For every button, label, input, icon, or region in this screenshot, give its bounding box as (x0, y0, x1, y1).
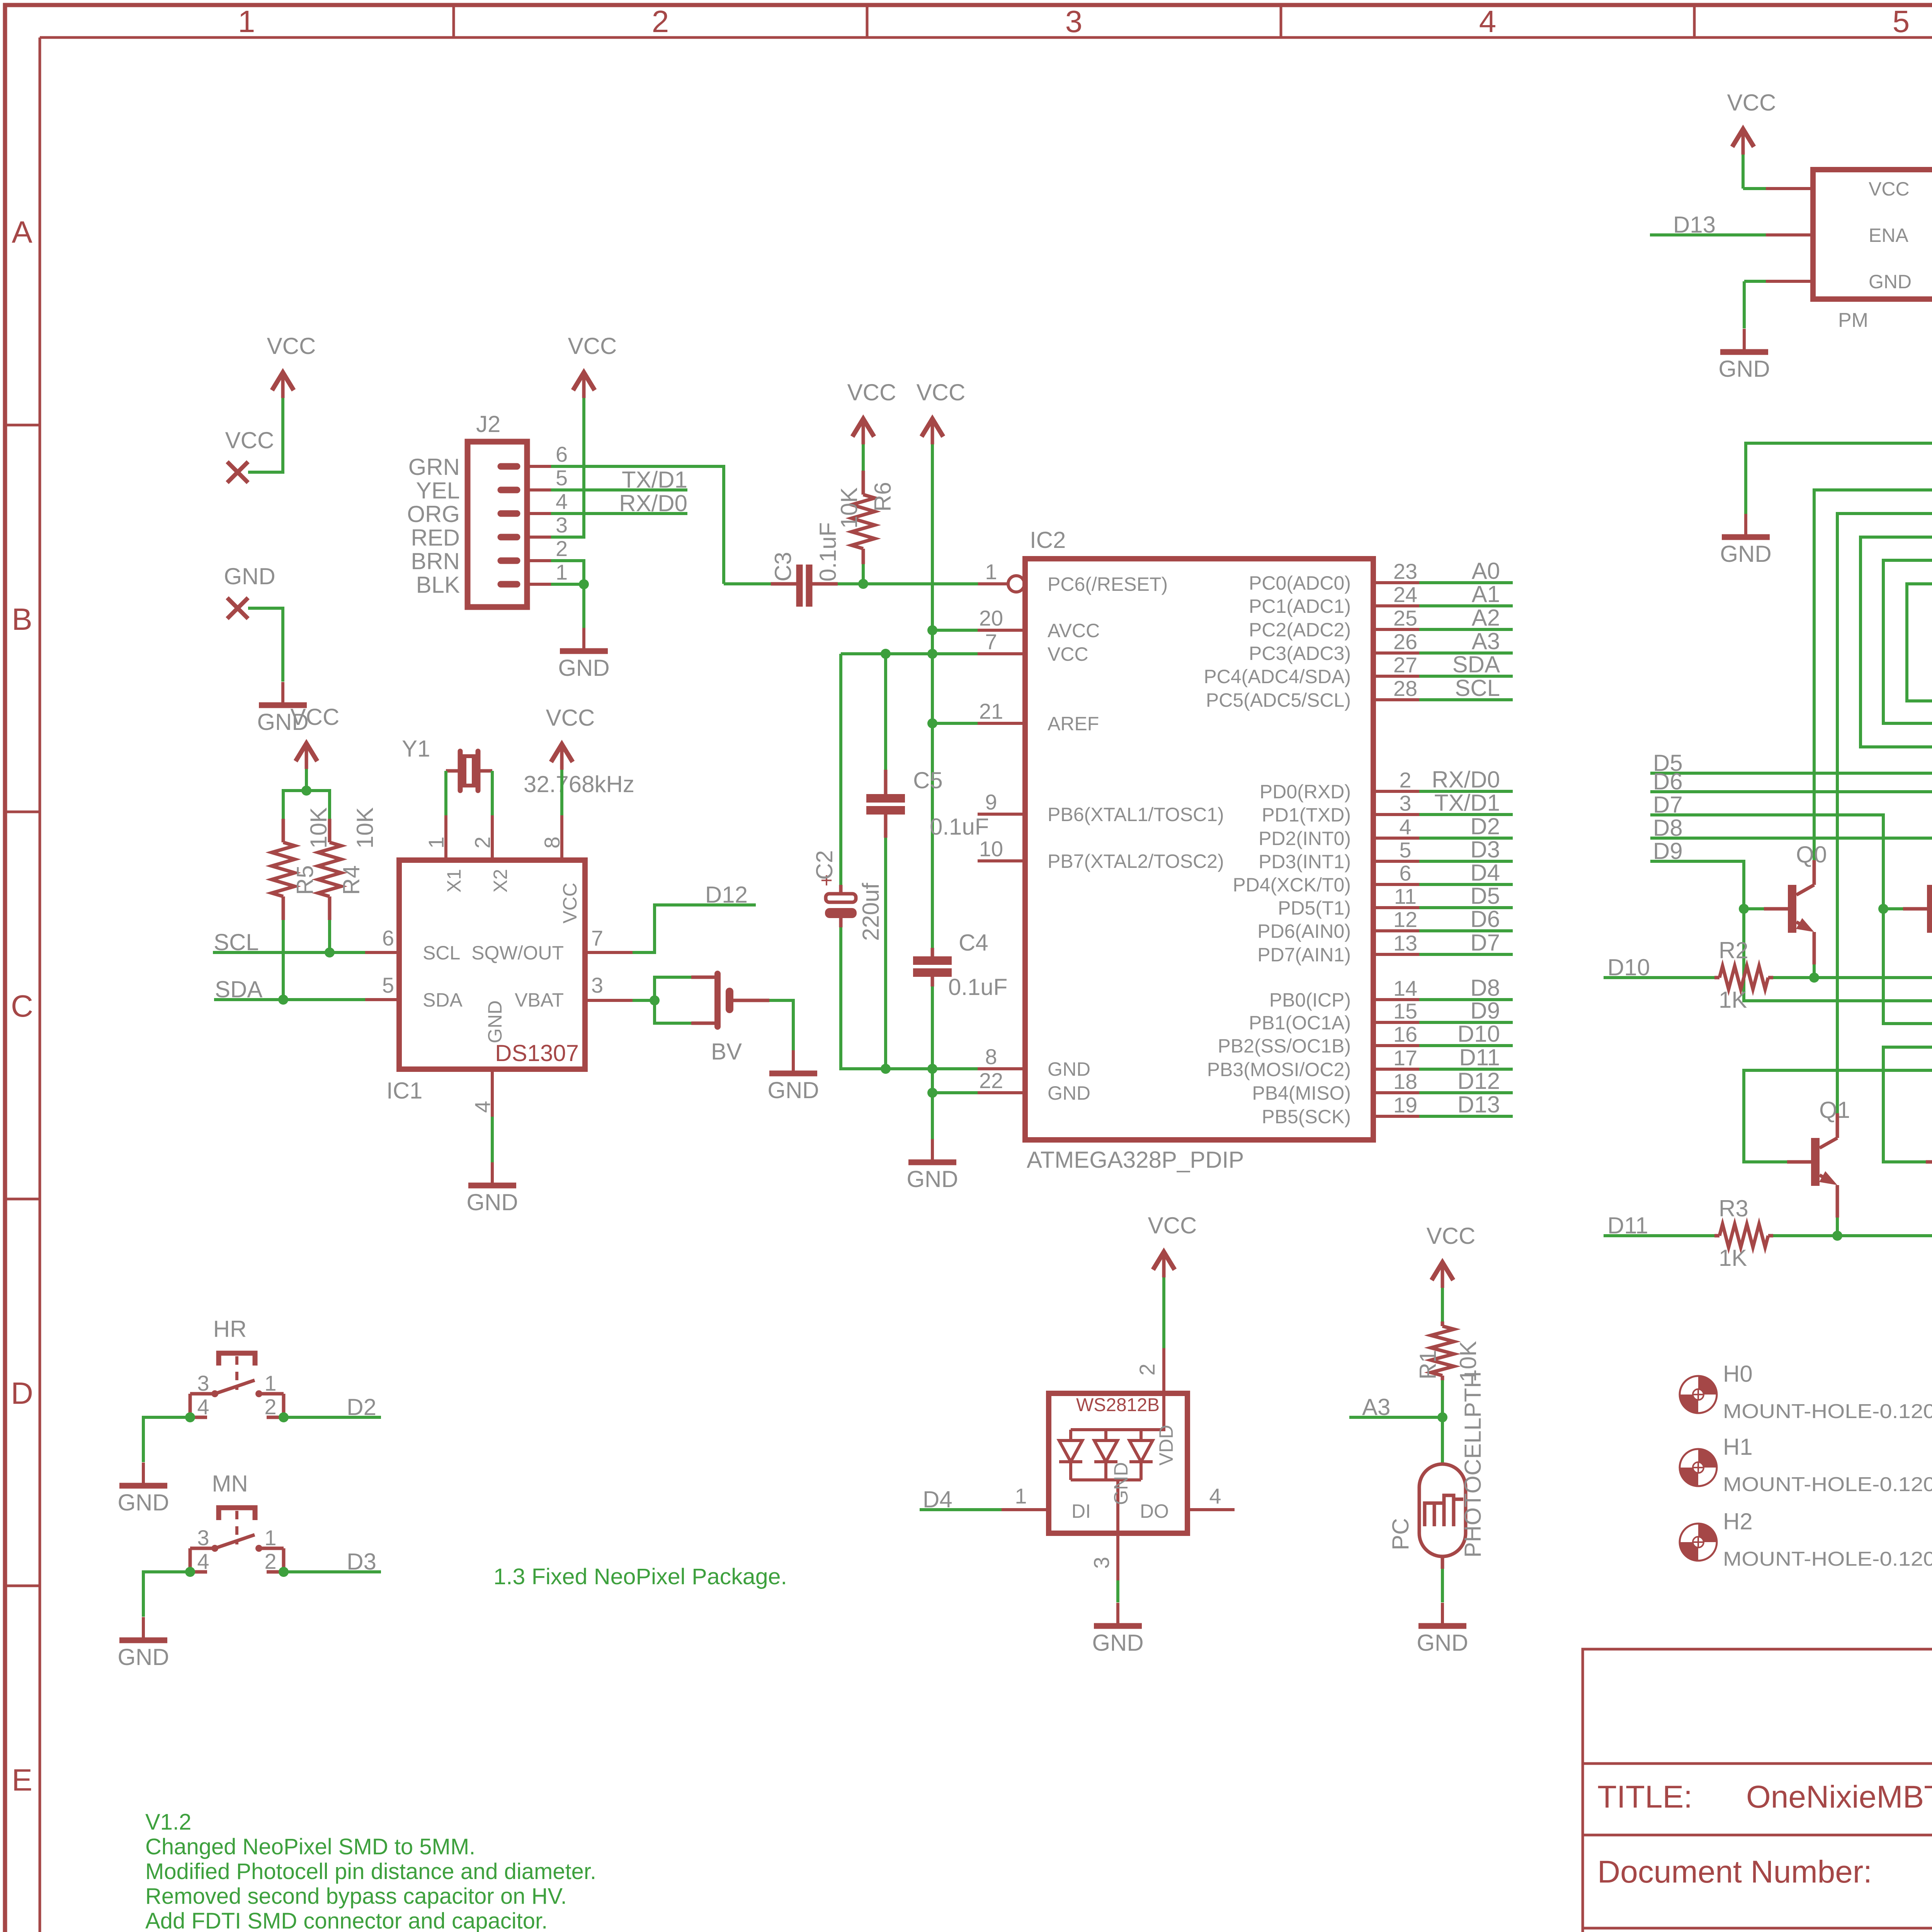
svg-text:17: 17 (1393, 1046, 1417, 1070)
junction D7 Q2 base (1878, 904, 1888, 914)
svg-text:PHOTOCELLPTH: PHOTOCELLPTH (1460, 1371, 1486, 1558)
svg-text:PD3(INT1): PD3(INT1) (1259, 851, 1351, 872)
svg-text:3: 3 (556, 513, 568, 537)
ground symbol MN (142, 1617, 145, 1640)
wire J2 pin6 net (551, 466, 724, 584)
photocell PC (1419, 1464, 1466, 1556)
mount hole H1 (1680, 1449, 1717, 1486)
wire C3 to Q3 collector (1883, 560, 1932, 1113)
svg-text:PD1(TXD): PD1(TXD) (1262, 804, 1351, 826)
svg-text:1: 1 (264, 1526, 276, 1550)
svg-text:GND: GND (1048, 1058, 1090, 1080)
svg-text:5: 5 (556, 466, 568, 490)
svg-text:D11: D11 (1459, 1044, 1500, 1070)
wire R2 emitter rail (1773, 976, 1932, 979)
svg-text:GND: GND (1869, 271, 1912, 293)
IC2 pin 3 wire TX/D1 (1373, 813, 1419, 816)
svg-text:GND: GND (1048, 1082, 1090, 1104)
wire battery to GND (733, 999, 769, 1002)
svg-text:VCC: VCC (225, 427, 274, 453)
wire C5 to ground rail (884, 838, 887, 1069)
svg-text:2: 2 (1399, 768, 1411, 792)
svg-text:10: 10 (979, 837, 1003, 861)
svg-text:22: 22 (979, 1068, 1003, 1093)
ground symbol LED (1116, 1603, 1119, 1626)
svg-text:A3: A3 (1362, 1394, 1390, 1420)
svg-text:D6: D6 (1470, 906, 1500, 932)
svg-text:PB6(XTAL1/TOSC1): PB6(XTAL1/TOSC1) (1048, 804, 1224, 825)
svg-text:3: 3 (197, 1526, 209, 1550)
svg-text:RX/D0: RX/D0 (1432, 767, 1500, 793)
svg-text:GND: GND (224, 563, 275, 589)
supply symbol VCC above R1 (1441, 1265, 1444, 1288)
svg-text:1: 1 (1015, 1484, 1027, 1508)
svg-text:VCC: VCC (917, 379, 966, 405)
IC2 pin 23 wire A0 (1373, 581, 1419, 584)
svg-text:1: 1 (556, 560, 568, 584)
transistor Q0 (1788, 885, 1796, 933)
svg-text:RED: RED (411, 525, 460, 551)
svg-text:BRN: BRN (411, 548, 460, 574)
svg-text:VCC: VCC (1148, 1213, 1197, 1238)
wire AREF stub (932, 722, 978, 725)
wire MN pin4 to GND (143, 1572, 190, 1617)
DO pin stub (1187, 1508, 1235, 1511)
svg-text:4: 4 (1399, 815, 1411, 839)
wire SCL net (213, 951, 365, 954)
svg-text:DS1307: DS1307 (495, 1040, 579, 1066)
capacitor C4 (931, 948, 934, 957)
svg-text:B: B (12, 602, 32, 636)
supply symbol VCC main rail (931, 421, 934, 444)
frame column dividers top (452, 7, 455, 37)
svg-text:PB3(MOSI/OC2): PB3(MOSI/OC2) (1207, 1059, 1351, 1080)
IC2 pin 26 wire A3 (1373, 651, 1419, 655)
svg-text:C: C (11, 989, 33, 1023)
frame row dividers left (7, 424, 40, 427)
svg-text:PD5(T1): PD5(T1) (1278, 897, 1351, 919)
IC2 pin 24 wire A1 (1373, 604, 1419, 607)
junction SCL/R4 (325, 947, 335, 957)
wire HR pin2 to D2 (284, 1416, 381, 1419)
IC2 pin 6 wire D4 (1373, 883, 1419, 886)
svg-text:15: 15 (1393, 999, 1417, 1023)
svg-text:H1: H1 (1723, 1434, 1753, 1460)
svg-text:3: 3 (591, 973, 603, 997)
supply symbol VCC above R5/R4 (305, 746, 308, 769)
svg-text:Modified Photocell pin distanc: Modified Photocell pin distance and diam… (145, 1859, 596, 1884)
junction ground rail pin22 (927, 1088, 937, 1098)
svg-text:D2: D2 (347, 1394, 376, 1420)
wire C4 to ground rail (931, 986, 934, 1139)
svg-text:1: 1 (985, 560, 997, 584)
svg-text:MOUNT-HOLE-0.120-NS: MOUNT-HOLE-0.120-NS (1723, 1473, 1932, 1496)
svg-text:A: A (12, 215, 32, 249)
svg-text:PB0(ICP): PB0(ICP) (1269, 989, 1351, 1011)
svg-text:A0: A0 (1472, 558, 1500, 584)
svg-text:Q1: Q1 (1819, 1097, 1850, 1123)
svg-text:J2: J2 (476, 411, 500, 437)
junction VBAT (650, 995, 660, 1005)
title block outer box (1583, 1649, 1932, 1932)
svg-text:Q0: Q0 (1796, 842, 1827, 867)
svg-text:GND: GND (1092, 1630, 1143, 1656)
svg-text:VCC: VCC (546, 705, 595, 731)
svg-text:SCL: SCL (423, 942, 460, 964)
svg-text:7: 7 (985, 629, 997, 654)
wire C1 to Q1 collector (1837, 514, 1932, 1113)
junction J2 pin1-pin2 (579, 579, 589, 589)
svg-text:PD2(INT0): PD2(INT0) (1259, 828, 1351, 849)
svg-text:GND: GND (484, 1000, 506, 1043)
svg-text:TITLE:: TITLE: (1597, 1779, 1692, 1815)
wire D8 net (1650, 838, 1932, 1162)
svg-text:D: D (11, 1376, 33, 1410)
IC2 pin 18 wire D12 (1373, 1091, 1419, 1094)
svg-text:X1: X1 (443, 869, 465, 893)
svg-text:D7: D7 (1470, 930, 1500, 956)
svg-text:VBAT: VBAT (515, 989, 564, 1011)
svg-text:2: 2 (652, 4, 669, 39)
wire IC2 GND pin22 stub (932, 1091, 978, 1094)
svg-text:4: 4 (1209, 1484, 1221, 1508)
svg-text:A2: A2 (1472, 605, 1500, 631)
svg-text:PD6(AIN0): PD6(AIN0) (1257, 920, 1351, 942)
svg-text:6: 6 (382, 926, 394, 950)
wire VCC to R5/R4 tops (283, 791, 330, 819)
resistor R6 (852, 495, 875, 549)
connector J2 pads (501, 463, 517, 470)
capacitor C2 branch wire upper (839, 654, 842, 885)
wire D6 net (1650, 792, 1932, 1162)
transistor Q1 (1811, 1138, 1820, 1186)
junction Q1 emitter (1832, 1231, 1842, 1241)
RTC IC1 box (399, 860, 585, 1069)
junction VCC row C5 (881, 649, 891, 659)
MCU IC2 box (1025, 559, 1373, 1140)
svg-text:MOUNT-HOLE-0.120-NS: MOUNT-HOLE-0.120-NS (1723, 1400, 1932, 1423)
IC2 pin 28 wire SCL (1373, 698, 1419, 701)
svg-text:12: 12 (1393, 907, 1417, 932)
IC2 pin 2 wire RX/D0 (1373, 790, 1419, 793)
svg-text:GND: GND (1718, 356, 1770, 382)
svg-text:7: 7 (591, 926, 603, 950)
ground symbol HR (142, 1463, 145, 1486)
svg-text:RX/D0: RX/D0 (619, 490, 687, 516)
capacitor C5 (884, 770, 888, 795)
wire J2 pin5 TX/D1 (551, 488, 687, 492)
wire VCC to R1 (1441, 1288, 1444, 1321)
svg-text:VCC: VCC (559, 883, 581, 923)
ground symbol PM (1743, 329, 1746, 352)
switch MN lever (215, 1535, 255, 1548)
svg-text:GND: GND (117, 1644, 169, 1670)
svg-text:VCC: VCC (267, 333, 316, 359)
svg-text:PM: PM (1838, 309, 1868, 332)
svg-text:D12: D12 (1458, 1068, 1500, 1094)
svg-text:GND: GND (767, 1077, 819, 1103)
svg-text:D9: D9 (1470, 998, 1500, 1024)
svg-text:R6: R6 (870, 482, 896, 512)
LED internal VDD trace (1141, 1393, 1164, 1430)
svg-text:32.768kHz: 32.768kHz (524, 771, 634, 797)
svg-text:3: 3 (1065, 4, 1083, 39)
supply symbol VCC above IC1 (560, 747, 564, 770)
wire D9 net (1650, 861, 1932, 1162)
svg-text:GND: GND (1720, 541, 1771, 567)
svg-text:TX/D1: TX/D1 (622, 467, 687, 493)
svg-text:11: 11 (1394, 884, 1417, 908)
svg-text:PD0(RXD): PD0(RXD) (1260, 781, 1351, 803)
svg-text:SQW/OUT: SQW/OUT (471, 942, 564, 964)
svg-text:24: 24 (1393, 582, 1417, 607)
svg-text:2: 2 (470, 837, 495, 849)
junction HR pin2 (279, 1412, 289, 1422)
junction ground rail main (927, 1064, 937, 1074)
wire Y1 pin2 to X2 (491, 771, 494, 815)
wire D11 to R3 (1604, 1234, 1714, 1237)
svg-text:R1: R1 (1415, 1350, 1441, 1379)
svg-text:1K: 1K (1719, 987, 1747, 1013)
svg-text:DO: DO (1140, 1500, 1169, 1522)
connector J2 box (468, 442, 527, 607)
svg-text:GND: GND (558, 655, 609, 681)
ground symbol IC1 (491, 1162, 494, 1185)
IC2 pin 13 wire D7 (1373, 953, 1419, 956)
svg-text:D12: D12 (705, 882, 748, 908)
wire VCC rail vertical (931, 444, 934, 948)
svg-text:0.1uF: 0.1uF (930, 814, 989, 840)
svg-text:PC5(ADC5/SCL): PC5(ADC5/SCL) (1206, 689, 1351, 711)
svg-text:23: 23 (1393, 559, 1417, 583)
wire IC2 GND pin8 stub (886, 1067, 978, 1070)
svg-text:IC1: IC1 (386, 1078, 422, 1104)
svg-text:2: 2 (1135, 1364, 1159, 1376)
svg-text:19: 19 (1393, 1093, 1417, 1117)
svg-text:2: 2 (264, 1395, 276, 1419)
svg-text:10K: 10K (306, 807, 332, 849)
junction A3 photocell (1437, 1412, 1447, 1422)
ground symbol photocell (1441, 1603, 1444, 1626)
svg-text:10K: 10K (352, 807, 378, 849)
svg-text:2: 2 (264, 1549, 276, 1573)
svg-text:PC6(/RESET): PC6(/RESET) (1048, 573, 1168, 595)
svg-text:V1.2: V1.2 (145, 1810, 191, 1835)
svg-text:1: 1 (264, 1371, 276, 1395)
svg-text:4: 4 (1479, 4, 1497, 39)
wire R4 lead to SCL (328, 920, 331, 952)
svg-text:SCL: SCL (214, 929, 259, 955)
wire VCC stub to VCC arrow (248, 398, 283, 472)
svg-text:VCC: VCC (1727, 90, 1776, 116)
svg-text:DI: DI (1071, 1500, 1091, 1522)
svg-text:6: 6 (556, 442, 568, 466)
wire photocell to GND (1441, 1556, 1444, 1569)
svg-text:8: 8 (540, 837, 564, 849)
svg-text:PD4(XCK/T0): PD4(XCK/T0) (1233, 874, 1351, 896)
svg-text:C2: C2 (811, 850, 837, 880)
capacitor C3 (771, 582, 797, 586)
ground symbol connector (1744, 514, 1747, 537)
ground symbol battery (792, 1050, 795, 1073)
svg-text:Y1: Y1 (402, 736, 430, 762)
resistor R3 1K (1714, 1234, 1719, 1238)
IC2 pin 25 wire A2 (1373, 628, 1419, 631)
svg-text:18: 18 (1393, 1069, 1417, 1094)
svg-text:GND: GND (466, 1189, 518, 1215)
junction R5/R4 VCC (301, 786, 311, 796)
svg-text:GND: GND (117, 1490, 169, 1515)
switch MN actuator bracket (219, 1508, 255, 1520)
svg-text:D13: D13 (1673, 212, 1716, 238)
svg-text:26: 26 (1393, 629, 1417, 654)
svg-text:MN: MN (212, 1471, 248, 1497)
svg-text:20: 20 (979, 606, 1003, 630)
svg-text:4: 4 (197, 1395, 209, 1419)
svg-text:13: 13 (1393, 931, 1417, 955)
svg-text:Add FDTI SMD connector and cap: Add FDTI SMD connector and capacitor. (145, 1908, 548, 1932)
IC2 pin 5 wire D3 (1373, 860, 1419, 863)
svg-text:VCC: VCC (1427, 1223, 1476, 1249)
svg-text:R4: R4 (338, 865, 364, 895)
capacitor C2 (839, 885, 843, 895)
svg-text:PD7(AIN1): PD7(AIN1) (1257, 944, 1351, 966)
svg-text:25: 25 (1393, 606, 1417, 630)
svg-text:3: 3 (1399, 791, 1411, 815)
svg-text:SDA: SDA (423, 989, 463, 1011)
svg-text:PC: PC (1388, 1518, 1413, 1550)
wire Y1 pin1 to X1 (444, 771, 447, 815)
svg-text:VDD: VDD (1155, 1425, 1177, 1466)
junction AREF (927, 718, 937, 728)
svg-text:ATMEGA328P_PDIP: ATMEGA328P_PDIP (1027, 1147, 1244, 1173)
svg-text:WS2812B: WS2812B (1076, 1395, 1160, 1415)
svg-text:5: 5 (382, 973, 394, 997)
wire SQW/OUT to D12 (585, 951, 633, 954)
wire J2 pin2 to GND net (551, 561, 584, 584)
svg-text:SDA: SDA (215, 976, 262, 1002)
svg-text:1K: 1K (1719, 1245, 1747, 1271)
junction Q0 emitter (1809, 973, 1819, 983)
wire SDA net (214, 998, 365, 1001)
wire D10 to R2 (1604, 976, 1714, 979)
svg-text:E: E (12, 1763, 32, 1797)
svg-text:C3: C3 (770, 552, 796, 582)
IC2 pin 19 wire D13 (1373, 1115, 1419, 1118)
IC2 pin 4 wire D2 (1373, 837, 1419, 840)
wire C2 to ground rail (841, 927, 886, 1069)
wire Q0 emitter lead (1813, 964, 1816, 978)
svg-text:4: 4 (197, 1549, 209, 1573)
net stub VCC unconnected (227, 462, 248, 483)
wire VCC row (841, 652, 978, 655)
svg-text:VCC: VCC (1048, 643, 1088, 665)
svg-text:C4: C4 (959, 930, 988, 956)
IC2 pin1 inversion circle (1008, 576, 1024, 592)
junction reset/R6 (858, 579, 868, 589)
svg-text:ORG: ORG (407, 501, 460, 527)
svg-text:VCC: VCC (568, 333, 617, 359)
supply symbol VCC above LED1 (1162, 1254, 1166, 1277)
wire D5 net (1650, 773, 1932, 1162)
wire R3 emitter rail (1773, 1234, 1932, 1237)
wire R5 lead to SDA (282, 920, 285, 1000)
svg-text:5: 5 (1399, 838, 1411, 862)
junction VCC row main (927, 649, 937, 659)
svg-text:D3: D3 (1470, 837, 1500, 862)
supply symbol VCC at J2 (582, 375, 586, 398)
svg-text:D4: D4 (1470, 860, 1500, 886)
svg-text:AVCC: AVCC (1048, 620, 1100, 641)
wire PM GND (1744, 280, 1766, 283)
switch HR lever (215, 1380, 255, 1394)
svg-text:SCL: SCL (1455, 675, 1500, 701)
IC2 pin 14 wire D8 (1373, 998, 1419, 1001)
supply symbol VCC above PM (1742, 131, 1745, 155)
svg-text:TX/D1: TX/D1 (1434, 790, 1500, 816)
svg-text:PC0(ADC0): PC0(ADC0) (1249, 572, 1351, 594)
IC2 pin 15 wire D9 (1373, 1021, 1419, 1024)
svg-text:MOUNT-HOLE-0.120-NS: MOUNT-HOLE-0.120-NS (1723, 1548, 1932, 1570)
svg-text:0.1uF: 0.1uF (948, 974, 1007, 1000)
svg-text:8: 8 (985, 1044, 997, 1069)
wire J2 pin3 to VCC (551, 398, 584, 537)
junction AVCC (927, 625, 937, 635)
svg-text:BLK: BLK (416, 572, 460, 598)
svg-text:Changed NeoPixel SMD to 5MM.: Changed NeoPixel SMD to 5MM. (145, 1834, 475, 1859)
svg-text:R3: R3 (1719, 1196, 1748, 1221)
svg-text:28: 28 (1393, 676, 1417, 701)
svg-text:PB7(XTAL2/TOSC2): PB7(XTAL2/TOSC2) (1048, 850, 1224, 872)
resistor R1 10K (1441, 1321, 1444, 1326)
svg-text:1.3 Fixed NeoPixel Package.: 1.3 Fixed NeoPixel Package. (493, 1564, 787, 1589)
svg-text:PC2(ADC2): PC2(ADC2) (1249, 619, 1351, 641)
wire VCC to IC1 pin8 (560, 770, 563, 815)
title block row lines (1583, 1762, 1932, 1765)
junction MN pin2 (279, 1567, 289, 1577)
svg-text:220uf: 220uf (858, 883, 884, 941)
wire VCC to PM (1743, 187, 1766, 190)
svg-text:BV: BV (711, 1039, 742, 1065)
svg-text:PC4(ADC4/SDA): PC4(ADC4/SDA) (1204, 666, 1351, 687)
wire C4 to Q4 collector (1907, 584, 1932, 860)
wire J2 pin1 to GND net (551, 584, 584, 628)
switch HR actuator bracket (219, 1353, 255, 1366)
IC2 pin 11 wire D5 (1373, 906, 1419, 909)
svg-text:GND: GND (1110, 1462, 1132, 1505)
battery BV (655, 977, 691, 1000)
svg-text:A3: A3 (1472, 628, 1500, 654)
svg-text:GND: GND (1417, 1630, 1468, 1656)
IC2 pin 12 wire D6 (1373, 929, 1419, 932)
junction MN pin4 (185, 1567, 195, 1577)
LED WS2812B box (1049, 1393, 1187, 1533)
svg-text:R2: R2 (1719, 937, 1748, 963)
svg-text:VCC: VCC (847, 379, 896, 405)
connector J2 pin stubs (527, 465, 551, 468)
svg-text:VCC: VCC (1869, 178, 1910, 200)
wire VCC to VDD pin2 (1162, 1277, 1165, 1348)
wire LED GND pin3 (1116, 1533, 1119, 1580)
junction SDA/R5 (278, 995, 288, 1005)
svg-text:3: 3 (197, 1371, 209, 1395)
svg-text:14: 14 (1393, 976, 1417, 1000)
wire R1 to A3 node (1441, 1380, 1444, 1464)
capacitor C5 branch wire upper (884, 654, 887, 770)
svg-text:PB5(SCK): PB5(SCK) (1262, 1106, 1351, 1128)
supply symbol VCC top-left (281, 375, 285, 398)
wire C3 to reset node (838, 582, 863, 585)
